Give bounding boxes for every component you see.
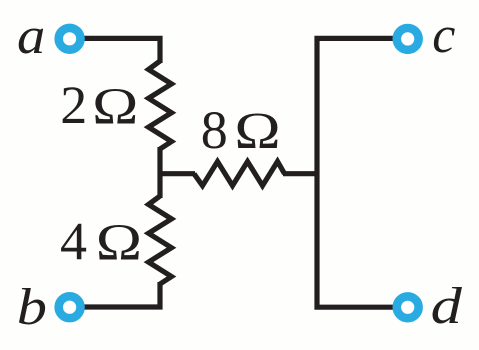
terminal b xyxy=(59,296,81,318)
svg-text:Ω: Ω xyxy=(96,215,142,272)
svg-text:Ω: Ω xyxy=(92,78,138,135)
resistor R2 4Ω (vertical zigzag) xyxy=(149,196,172,284)
terminal a xyxy=(59,28,81,50)
wire: right bus from terminal c down to terminal d xyxy=(317,38,407,307)
svg-text:8: 8 xyxy=(201,100,228,160)
wire: junction to left lead of 8Ω resistor xyxy=(158,171,196,176)
wire: terminal a to top of 2Ω resistor xyxy=(70,38,160,63)
terminal d xyxy=(397,296,419,318)
terminal c xyxy=(397,28,419,50)
wire: right lead of 8Ω to right bus xyxy=(283,171,317,176)
svg-text:b: b xyxy=(17,279,47,336)
wire: 4Ω bottom to terminal b xyxy=(70,282,161,307)
resistor R3 8Ω (horizontal zigzag) xyxy=(194,162,285,186)
svg-text:c: c xyxy=(432,7,455,64)
svg-text:2: 2 xyxy=(60,75,87,135)
svg-text:Ω: Ω xyxy=(234,103,280,160)
svg-text:a: a xyxy=(17,8,45,65)
svg-text:4: 4 xyxy=(60,212,87,272)
resistor R1 2Ω (vertical zigzag) xyxy=(149,61,172,149)
wire: 2Ω bottom through junction to 4Ω top xyxy=(157,147,162,198)
svg-text:d: d xyxy=(431,278,463,335)
